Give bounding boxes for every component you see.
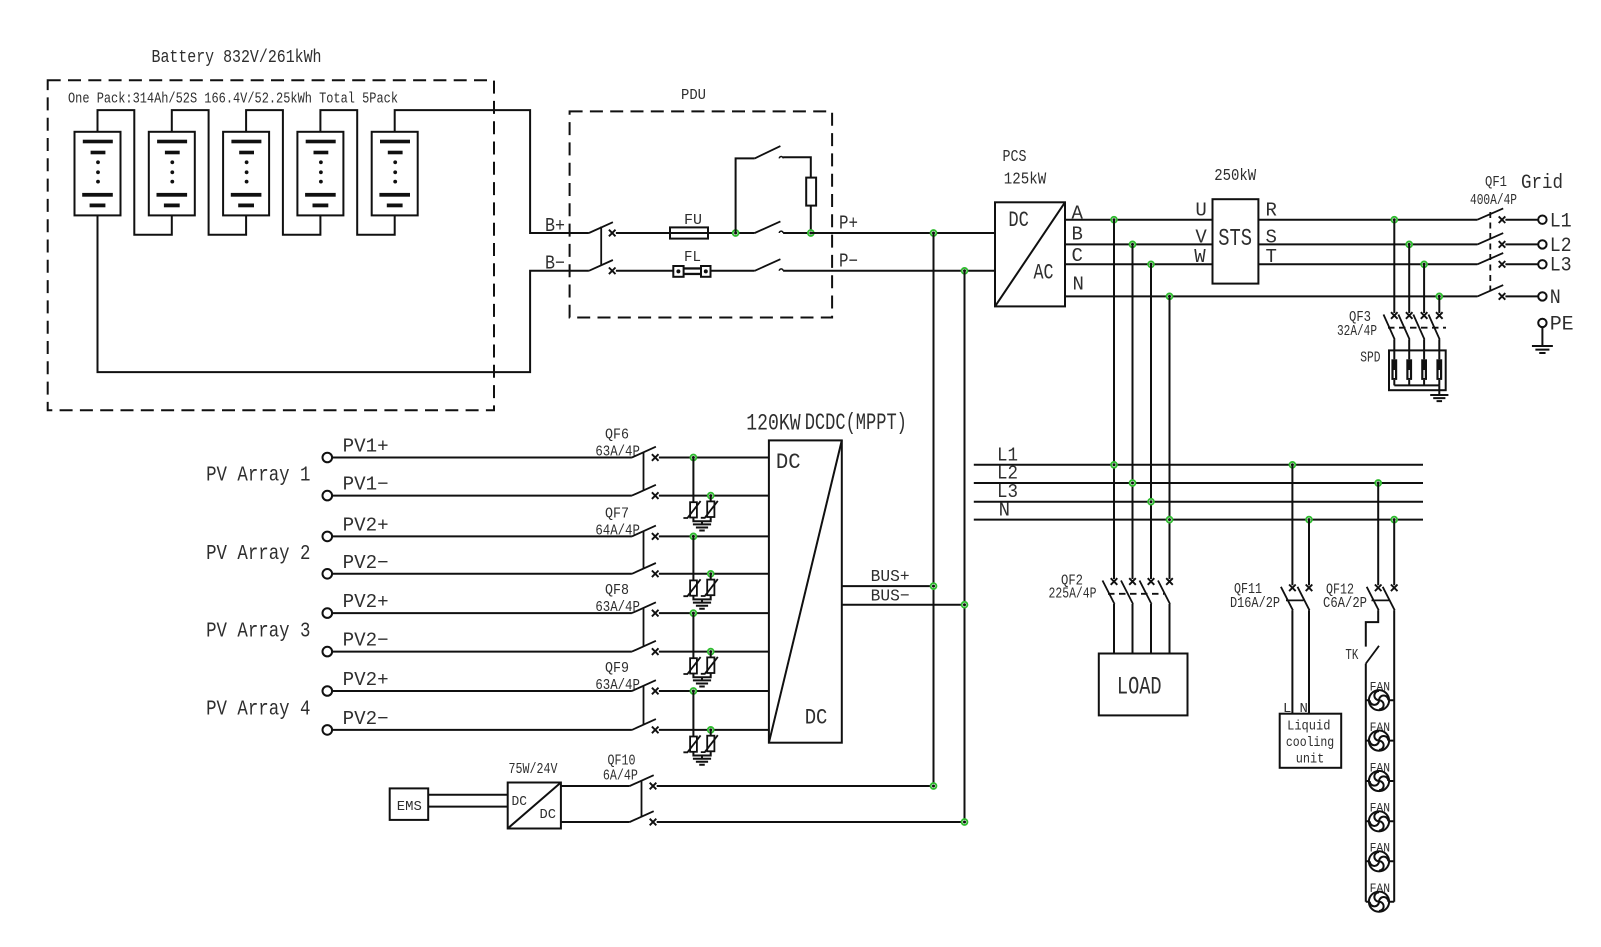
svg-text:QF8: QF8 <box>605 583 629 599</box>
wire SPD tap - down (array 3) <box>710 652 712 658</box>
varistor RV4 <box>707 580 714 596</box>
SPD enclosure <box>1389 350 1446 390</box>
svg-text:63A/4P: 63A/4P <box>595 678 640 694</box>
wire fan feeder N down <box>1393 610 1395 901</box>
svg-text:TK: TK <box>1345 647 1358 664</box>
terminal PV2- (array 2) <box>323 569 333 579</box>
varistor RV2 <box>707 501 714 517</box>
svg-text:DC: DC <box>540 807 557 823</box>
node tap QF3 pole 2 <box>1406 242 1412 248</box>
svg-text:QF1: QF1 <box>1485 175 1507 191</box>
breaker QF8 pole + (lever with x) <box>632 602 656 613</box>
svg-text:63A/4P: 63A/4P <box>595 600 640 616</box>
node P+ merge <box>808 230 814 236</box>
fan M2 <box>1366 740 1394 742</box>
varistor RV7 <box>690 737 697 752</box>
svg-text:SPD: SPD <box>1360 349 1380 366</box>
terminal PV2+ (array 4) <box>323 686 333 696</box>
terminal PV2+ (array 3) <box>323 608 333 618</box>
wire SPD tap + down (array 2) <box>692 536 694 580</box>
switch QS pole B- (lever with x) <box>589 260 613 271</box>
svg-text:N: N <box>1073 273 1084 295</box>
breaker QF1 mechanical link (dashed) <box>1489 212 1491 293</box>
svg-text:PV2−: PV2− <box>343 708 389 730</box>
node SPD tap + (array 3) <box>691 610 697 616</box>
node after FU on P+ line <box>736 232 755 234</box>
wire SPD internal bus <box>1394 384 1439 386</box>
EMS box <box>390 788 429 820</box>
node DC bus- tap on P- <box>962 268 968 274</box>
node tap QF3 pole 1 <box>1391 217 1397 223</box>
terminal PV2- (array 4) <box>323 725 333 735</box>
breaker QF6 mechanical link <box>643 452 645 490</box>
breaker QF10 mechanical link <box>641 781 643 817</box>
node tap N to load bus <box>1167 294 1173 300</box>
contactor KM precharge <box>755 146 781 158</box>
battery pack BT1 <box>75 132 121 216</box>
wire series link BT2+ to BT3- <box>172 110 246 235</box>
wire series link BT3+ to BT4- <box>246 110 320 235</box>
svg-text:120KW: 120KW <box>746 410 801 437</box>
svg-text:B: B <box>1072 223 1083 245</box>
node tap QF11 L <box>1290 462 1296 468</box>
wire QF12 pole L jog to TK <box>1366 610 1378 646</box>
wire QF2 pole 4 to LOAD <box>1169 604 1171 654</box>
svg-text:PV2−: PV2− <box>343 630 389 652</box>
wire SPD tap - down (array 4) <box>710 730 712 736</box>
wire QF3 pole 1 to SPD <box>1393 340 1395 360</box>
svg-text:C6A/2P: C6A/2P <box>1323 596 1367 612</box>
breaker QF6 pole - (lever with x) <box>632 485 656 496</box>
wire SPD to ground <box>1438 385 1440 395</box>
wire varistor pair to ground (array 3) <box>693 673 710 680</box>
svg-text:unit: unit <box>1296 752 1325 768</box>
svg-text:cooling: cooling <box>1286 735 1334 751</box>
svg-text:DC: DC <box>1008 208 1029 233</box>
svg-text:400A/4P: 400A/4P <box>1470 193 1517 209</box>
wire SPD element 2 to bus <box>1408 380 1410 386</box>
svg-text:N: N <box>999 500 1010 522</box>
terminal L1 <box>1538 216 1546 224</box>
svg-text:63A/4P: 63A/4P <box>595 445 640 461</box>
wire tap down to QF3 pole 3 <box>1423 264 1425 313</box>
wire PV2- to QF7 <box>332 573 632 575</box>
svg-text:QF9: QF9 <box>605 661 629 677</box>
resistor R precharge <box>806 178 816 206</box>
varistor RV6 <box>707 657 714 673</box>
svg-text:QF7: QF7 <box>605 506 629 522</box>
node bus L1 junction <box>1111 462 1117 468</box>
wire varistor pair to ground (array 1) <box>693 517 710 524</box>
svg-text:L1: L1 <box>1550 211 1572 234</box>
SPD element 1 <box>1391 359 1397 380</box>
PDU enclosure (dashed) <box>570 111 833 317</box>
wire phase B from PCS to STS <box>1065 243 1213 245</box>
wire SPD tap + down (array 3) <box>692 613 694 658</box>
breaker QF2 pole 3 <box>1148 578 1155 585</box>
wire SPD element 4 to bus <box>1438 380 1440 386</box>
wire phase A from PCS to STS <box>1065 219 1213 221</box>
breaker QF2 pole 1 <box>1111 578 1118 585</box>
svg-text:125kW: 125kW <box>1004 170 1046 189</box>
node DC bus+ tap on P+ <box>931 230 937 236</box>
wire QF3 pole 4 to SPD <box>1438 340 1440 360</box>
breaker QF2 pole 4 <box>1166 578 1173 585</box>
wire QF2 pole 1 to LOAD <box>1113 604 1115 654</box>
svg-text:One Pack:314Ah/52S 166.4V/52.2: One Pack:314Ah/52S 166.4V/52.25kWh Total… <box>68 92 398 108</box>
terminal PV2- (array 3) <box>323 647 333 657</box>
svg-text:D16A/2P: D16A/2P <box>1230 596 1280 612</box>
battery pack BT2 <box>149 132 195 216</box>
wire PV2+ to QF7 <box>332 535 632 537</box>
breaker QF8 pole - (lever with x) <box>632 641 656 652</box>
SPD element 3 <box>1421 359 1427 380</box>
svg-text:6A/4P: 6A/4P <box>603 769 638 785</box>
wire QF8 pole + out <box>659 612 769 614</box>
wire FL to contactor <box>711 270 755 272</box>
SPD element 4 <box>1436 359 1442 380</box>
node BUS- junction <box>962 602 968 608</box>
breaker QF12 pole N <box>1391 585 1398 592</box>
node tap C to load bus <box>1148 261 1154 267</box>
terminal L3 <box>1538 260 1546 268</box>
node tap QF12 L <box>1375 480 1381 486</box>
ground (array 1 SPD) <box>693 524 711 530</box>
wire SPD tap - down (array 1) <box>710 496 712 502</box>
svg-text:L3: L3 <box>1550 255 1572 278</box>
wire tap C down to QF2 <box>1150 264 1152 579</box>
wire SPD element 1 to bus <box>1393 380 1395 386</box>
terminal PE <box>1538 319 1546 327</box>
node SPD tap - (array 3) <box>708 649 714 655</box>
battery pack BT4 <box>297 132 343 216</box>
node SPD tap + (array 1) <box>691 455 697 461</box>
SPD element 2 <box>1406 359 1412 380</box>
svg-text:EMS: EMS <box>397 799 422 815</box>
wire varistor pair to ground (array 2) <box>693 595 710 602</box>
svg-text:N: N <box>1550 287 1561 310</box>
svg-text:250kW: 250kW <box>1214 166 1256 185</box>
svg-text:BUS−: BUS− <box>871 587 910 606</box>
wire tap down to QF3 pole 1 <box>1393 220 1395 313</box>
svg-text:75W/24V: 75W/24V <box>509 761 558 778</box>
terminal PV1+ (array 1) <box>323 453 333 463</box>
svg-text:PV2+: PV2+ <box>343 669 389 691</box>
svg-text:PV1−: PV1− <box>343 474 389 496</box>
node tap QF3 pole 3 <box>1421 261 1427 267</box>
svg-text:PV Array 2: PV Array 2 <box>206 543 310 566</box>
svg-text:B+: B+ <box>545 215 565 237</box>
wire phase C from PCS to STS <box>1065 263 1213 265</box>
wire load bus L1 <box>974 464 1423 466</box>
wire SPD element 3 to bus <box>1423 380 1425 386</box>
fuse FL (fuse-switch symbol) <box>673 266 683 277</box>
breaker QF1 pole N <box>1477 285 1503 296</box>
wire load bus L3 <box>974 501 1423 503</box>
fan M1 <box>1366 699 1394 701</box>
battery pack BT3 <box>223 132 269 216</box>
terminal PV2+ (array 2) <box>323 532 333 542</box>
breaker QF11 mechanical link <box>1286 599 1304 601</box>
wire PV2- to QF9 <box>332 729 632 731</box>
wire PV2+ to QF8 <box>332 612 632 614</box>
breaker QF11 pole L <box>1289 585 1296 592</box>
svg-text:AC: AC <box>1034 261 1054 286</box>
switch QS mechanical link <box>600 227 602 266</box>
wire PV2+ to QF9 <box>332 690 632 692</box>
wire tap QF12 L down <box>1377 483 1379 585</box>
wire tap QF11 N down <box>1308 520 1310 586</box>
svg-text:PV2−: PV2− <box>343 552 389 574</box>
svg-text:32A/4P: 32A/4P <box>1337 324 1377 340</box>
svg-text:QF6: QF6 <box>605 428 629 444</box>
wire PV1+ to QF6 <box>332 457 632 459</box>
wire PE to ground <box>1541 327 1543 346</box>
wire QF3 pole 3 to SPD <box>1423 340 1425 360</box>
wire series link BT1+ to BT2- <box>98 110 172 235</box>
breaker QF11 pole N <box>1306 585 1313 592</box>
breaker QF7 mechanical link <box>643 531 645 568</box>
svg-text:Liquid: Liquid <box>1287 719 1330 735</box>
contactor KM pole P- <box>755 259 781 271</box>
svg-text:QF10: QF10 <box>608 754 636 770</box>
svg-text:LOAD: LOAD <box>1117 673 1162 702</box>
wire tap down to QF3 pole 2 <box>1408 244 1410 313</box>
battery enclosure (dashed) <box>48 80 494 410</box>
breaker QF2 pole 2 <box>1129 578 1136 585</box>
varistor RV5 <box>690 658 697 673</box>
ground (PE) <box>1532 346 1553 353</box>
svg-text:C: C <box>1072 245 1083 267</box>
breaker QF12 pole L <box>1375 585 1382 592</box>
node tap B to load bus <box>1130 242 1136 248</box>
node QF10 to bus- <box>962 819 968 825</box>
node QF10 to bus+ <box>931 783 937 789</box>
node bus N junction <box>1167 517 1173 523</box>
wire precharge branch up <box>736 158 755 233</box>
breaker QF8 mechanical link <box>643 608 645 647</box>
wire varistor pair to ground (array 4) <box>693 751 710 758</box>
svg-text:PV2+: PV2+ <box>343 591 389 613</box>
node bus L3 junction <box>1148 499 1154 505</box>
wire SPD tap + down (array 1) <box>692 458 694 503</box>
wire SPD tap + down (array 4) <box>692 691 694 737</box>
DC/DC aux converter U4 <box>508 783 561 829</box>
LOAD box <box>1099 654 1188 716</box>
svg-text:Battery 832V/261kWh: Battery 832V/261kWh <box>152 48 322 68</box>
breaker QF10 pole - (lever with x) <box>630 811 654 822</box>
breaker QF3 mechanical link (dashed) <box>1388 327 1446 329</box>
fan M3 <box>1366 780 1394 782</box>
svg-text:PV Array 3: PV Array 3 <box>206 620 310 643</box>
battery pack BT5 <box>372 132 418 216</box>
switch QS pole B+ (lever with x) <box>589 222 613 233</box>
wire B- from BT1 to PDU <box>98 215 589 372</box>
svg-text:B−: B− <box>545 253 565 275</box>
contactor KM main (P+ line) <box>755 221 781 233</box>
svg-text:PV1+: PV1+ <box>343 436 389 458</box>
breaker QF3 pole 3 <box>1421 312 1428 319</box>
wire QF11 pole N to cooling unit <box>1308 610 1310 713</box>
breaker QF10 pole + (lever with x) <box>630 775 654 786</box>
fan M5 <box>1366 860 1394 862</box>
svg-text:Grid: Grid <box>1521 172 1563 195</box>
svg-text:P−: P− <box>839 250 858 272</box>
wire QF2 pole 2 to LOAD <box>1132 604 1134 654</box>
varistor RV8 <box>707 736 714 752</box>
node bus L2 junction <box>1130 480 1136 486</box>
wire neutral N from PCS to QF1 <box>1065 295 1477 297</box>
wire QF7 pole - out <box>659 573 769 575</box>
ground (SPD) <box>1430 395 1448 401</box>
wire BUS- from DCDC <box>842 604 965 606</box>
svg-text:A: A <box>1072 202 1084 224</box>
wire EMS to DC/DC (pair) <box>428 795 508 807</box>
terminal N <box>1538 292 1546 300</box>
wire tap QF12 N down <box>1393 520 1395 586</box>
breaker QF12 mechanical link <box>1372 599 1390 601</box>
breaker QF2 mechanical link (dashed) <box>1108 593 1164 595</box>
terminal PV1- (array 1) <box>323 491 333 501</box>
svg-text:BUS+: BUS+ <box>871 568 910 587</box>
wire tap A down to QF2 <box>1113 220 1115 579</box>
wire tap QF11 L down <box>1291 465 1293 586</box>
PCS converter U1 (DC/AC) <box>995 202 1065 306</box>
wire phase T from STS to QF1 <box>1258 263 1477 265</box>
breaker QF1 pole L2 <box>1477 233 1503 244</box>
wire series link BT4+ to BT5- <box>320 110 394 235</box>
wire QF10 pole - to DC bus- <box>657 821 965 823</box>
node SPD tap + (array 4) <box>691 688 697 694</box>
svg-text:STS: STS <box>1218 226 1252 253</box>
node tap A to load bus <box>1111 217 1117 223</box>
breaker QF9 pole + (lever with x) <box>632 680 656 691</box>
STS static transfer switch U2 <box>1213 199 1259 283</box>
breaker QF9 pole - (lever with x) <box>632 719 656 730</box>
svg-text:PV Array 1: PV Array 1 <box>206 465 310 488</box>
ground (array 2 SPD) <box>693 603 711 609</box>
wire P+ to PCS <box>811 232 995 234</box>
wire load bus N <box>974 519 1423 521</box>
fan M6 <box>1366 901 1394 903</box>
DCDC converter U3 (MPPT) <box>769 440 842 742</box>
node tap QF3 pole 4 <box>1436 294 1442 300</box>
wire QF9 pole - out <box>659 729 769 731</box>
breaker QF9 mechanical link <box>643 686 645 725</box>
node SPD tap - (array 2) <box>708 571 714 577</box>
wire TK down fan feeder L <box>1365 664 1367 902</box>
wire QF6 pole - out <box>659 495 769 497</box>
svg-text:64A/4P: 64A/4P <box>595 523 640 539</box>
svg-text:PCS: PCS <box>1003 147 1027 166</box>
fan M4 <box>1366 820 1394 822</box>
ground (array 4 SPD) <box>693 759 711 765</box>
wire QF9 pole + out <box>659 690 769 692</box>
wire PV1- to QF6 <box>332 495 632 497</box>
node BUS+ junction <box>931 583 937 589</box>
ground (array 3 SPD) <box>693 680 711 686</box>
breaker QF3 pole 2 <box>1406 312 1413 319</box>
svg-text:PV2+: PV2+ <box>343 514 389 536</box>
svg-text:U: U <box>1195 200 1206 222</box>
wire tap N down to QF2 <box>1169 296 1171 579</box>
breaker QF3 pole 1 <box>1391 312 1398 319</box>
node tap QF11 N <box>1306 517 1312 523</box>
wire PV2- to QF8 <box>332 651 632 653</box>
breaker QF3 pole 4 <box>1436 312 1443 319</box>
wire B+ from BT5 to PDU <box>395 110 589 233</box>
fuse FU <box>670 232 736 234</box>
wire tap B down to QF2 <box>1132 244 1134 579</box>
breaker QF1 pole L3 <box>1477 253 1503 264</box>
breaker QF7 pole - (lever with x) <box>632 563 656 574</box>
svg-text:W: W <box>1194 246 1206 268</box>
breaker QF6 pole + (lever with x) <box>632 447 656 458</box>
wire QF6 pole + out <box>659 457 769 459</box>
svg-text:DC: DC <box>512 794 528 810</box>
node SPD tap - (array 4) <box>708 727 714 733</box>
svg-text:PV Array 4: PV Array 4 <box>206 699 310 722</box>
wire QF7 pole + out <box>659 535 769 537</box>
wire QF2 pole 3 to LOAD <box>1150 604 1152 654</box>
svg-text:FU: FU <box>684 212 702 229</box>
wire aux - to QF10 <box>561 821 630 823</box>
breaker QF7 pole + (lever with x) <box>632 526 656 537</box>
wire DC bus+ vertical <box>933 233 935 786</box>
wire aux + to QF10 <box>561 785 630 787</box>
svg-text:PE: PE <box>1550 314 1574 337</box>
svg-text:P+: P+ <box>839 213 858 235</box>
switch TK (thermal contact) <box>1366 646 1379 664</box>
wire DC bus- vertical <box>964 271 966 822</box>
svg-text:FL: FL <box>684 249 701 266</box>
node SPD tap + (array 2) <box>691 534 697 540</box>
node tap QF12 N <box>1391 517 1397 523</box>
wire SPD tap - down (array 2) <box>710 574 712 580</box>
svg-text:PDU: PDU <box>681 87 706 104</box>
svg-text:DCDC(MPPT): DCDC(MPPT) <box>805 410 907 437</box>
svg-text:DC: DC <box>776 450 801 475</box>
varistor RV1 <box>690 502 697 517</box>
breaker QF1 pole L1 <box>1477 208 1503 219</box>
wire phase S from STS to QF1 <box>1258 243 1477 245</box>
Liquid cooling unit box <box>1280 714 1342 768</box>
svg-text:R: R <box>1266 200 1277 222</box>
wire QF8 pole - out <box>659 651 769 653</box>
node SPD tap - (array 1) <box>708 493 714 499</box>
wire QF10 pole + to DC bus+ <box>657 785 934 787</box>
svg-text:DC: DC <box>805 705 828 730</box>
wire phase R from STS to QF1 <box>1258 219 1477 221</box>
terminal L2 <box>1538 240 1546 248</box>
svg-text:225A/4P: 225A/4P <box>1049 587 1097 603</box>
wire BUS+ from DCDC <box>842 585 934 587</box>
wire QF3 pole 2 to SPD <box>1408 340 1410 360</box>
wire QF11 pole L to cooling unit <box>1291 610 1293 713</box>
wire tap down to QF3 pole 4 <box>1438 296 1440 313</box>
wire resistor to P+ node <box>810 206 812 233</box>
wire load bus L2 <box>974 482 1423 484</box>
varistor RV3 <box>690 580 697 595</box>
